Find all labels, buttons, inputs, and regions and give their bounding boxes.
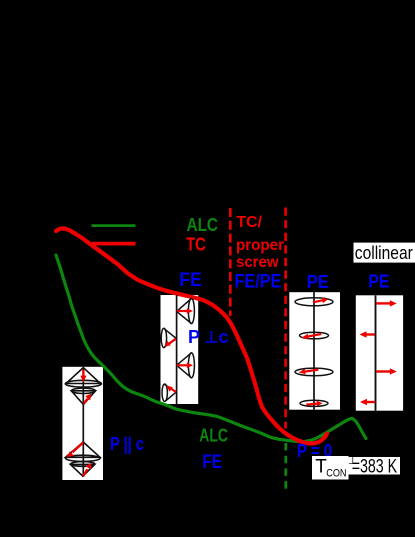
panel 3 ellipse 4 (300, 400, 328, 406)
panel 1 bottom small ellipse (71, 462, 95, 467)
panel 1 vertical axis line (82, 368, 84, 477)
panel 1 bottom down-cone (70, 464, 94, 476)
collinear white label box (354, 243, 415, 263)
panel 1 bottom large ellipse (66, 455, 101, 461)
svg-text:FE/PE: FE/PE (235, 272, 282, 293)
svg-text:proper: proper (236, 237, 284, 254)
panel 2 cone 1 (top, opens right) (177, 298, 195, 323)
left red dashed vertical line (TC transition) (229, 208, 232, 316)
panel 1 bottom red arrow (tilted up-right) (83, 463, 91, 477)
panel 3 ellipse 2 (300, 332, 329, 339)
svg-text:TC/: TC/ (236, 214, 262, 231)
panel 1 top red arrow (down along axis) (80, 370, 86, 383)
panel 2 cone 3 (middle, opens right) (177, 353, 195, 378)
legend TC sample line (red) (92, 242, 136, 246)
panel 3 ellipse 3 (295, 368, 333, 376)
svg-text:=383 K: =383 K (352, 456, 398, 477)
panel 1 top small ellipse (71, 388, 95, 393)
T_CON label white box (right part) (349, 457, 401, 475)
panel 1 bottom up-cone (66, 442, 101, 457)
panel 3 arrow 2 (left-down) (302, 334, 322, 340)
svg-text:⊥: ⊥ (205, 330, 219, 347)
svg-text:PE: PE (368, 271, 389, 292)
panel 1 white box (62, 367, 103, 480)
panel 3 arrow 3 (left) (299, 369, 319, 375)
panel 4 arrow 2 (left) (360, 331, 375, 337)
svg-text:ALC: ALC (199, 426, 228, 446)
svg-text:ALC: ALC (187, 215, 219, 235)
panel 4 vertical axis line (375, 295, 377, 410)
panel 3 arrow 4 (right) (306, 401, 322, 407)
panel 4 arrow 1 (right) (376, 300, 397, 306)
panel 2 white box (161, 295, 199, 404)
panel 2 cone 4 red arrow (down-left) (166, 386, 176, 393)
svg-text:collinear: collinear (355, 242, 413, 263)
svg-text:FE: FE (202, 452, 222, 473)
panel 4 arrow 3 (right) (376, 368, 397, 374)
panel 4 white box (356, 295, 403, 410)
svg-text:CON: CON (326, 468, 346, 480)
red curve (TC phase boundary) (56, 228, 327, 443)
panel 3 ellipse 1 (295, 298, 333, 306)
panel 2 cone 1 red arrow (right) (177, 308, 193, 314)
panel 2 cone 2 red arrow (down-left) (165, 339, 176, 347)
svg-text:P: P (188, 327, 200, 347)
panel 3 white box (289, 292, 340, 410)
panel 1 bottom-left red arrow (tilted down-left) (66, 443, 83, 458)
panel 3 vertical axis line (313, 292, 315, 410)
panel 2 cone 2 (left, tilted down-left) (161, 328, 176, 347)
panel 2 cone 4 (bottom left, tilted down-left) (162, 384, 176, 401)
panel 1 top up-cone (66, 368, 101, 384)
legend ALC sample line (green) (92, 224, 136, 227)
panel 3 arrow 1 (up-right) (313, 298, 328, 304)
green dashed vertical line (lower part, T_CON) (284, 443, 287, 490)
panel 1 top large ellipse (65, 380, 101, 387)
panel 4 arrow 4 (left) (360, 399, 375, 405)
svg-text:screw: screw (236, 254, 279, 271)
svg-text:c: c (219, 327, 229, 347)
panel 2 cone 3 red arrow (right) (177, 363, 193, 369)
svg-text:TC: TC (186, 235, 206, 255)
green curve (ALC phase boundary) (56, 255, 366, 442)
right red dashed vertical line (upper part) (284, 208, 287, 429)
T_CON label white box (left part) (312, 456, 349, 480)
svg-text:P || c: P || c (110, 434, 144, 454)
panel 1 top down-cone (71, 391, 95, 405)
svg-text:FE: FE (179, 269, 202, 291)
panel 2 vertical axis line (176, 295, 178, 404)
svg-text:PE: PE (307, 271, 329, 292)
panel 1 top-right red arrow (tilted) (84, 394, 92, 404)
